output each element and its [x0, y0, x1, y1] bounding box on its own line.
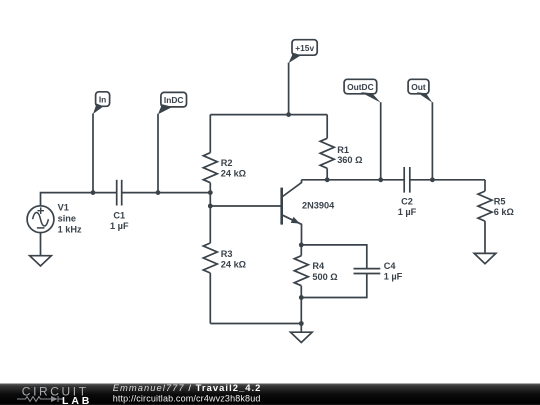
label C2 value: [398, 196, 417, 217]
svg-text:InDC: InDC: [164, 95, 184, 105]
svg-text:Out: Out: [411, 82, 426, 92]
wire R4 bottom to ground node: [300, 298, 302, 333]
svg-text:360 Ω: 360 Ω: [337, 155, 362, 165]
svg-text:OutDC: OutDC: [347, 82, 374, 92]
label R3 value: [221, 249, 246, 270]
wire emitter node to R4 top handled above; node junction emitter: [299, 243, 304, 248]
wire R3 bottom run to ground node: [210, 323, 301, 325]
flag In: [93, 92, 110, 114]
capacitor C2: [404, 167, 410, 193]
ground under V1: [30, 256, 52, 266]
label V1 value: [58, 202, 82, 234]
node junction R4 bottom: [299, 295, 304, 300]
resistor R2: [203, 115, 217, 193]
flag OutDC: [344, 79, 381, 102]
resistor R5: [478, 180, 492, 254]
ground under R5: [474, 253, 496, 263]
svg-text:R2: R2: [221, 158, 233, 168]
wire main input rail y=192.6 right of C1: [122, 192, 211, 194]
label R5 value: [494, 196, 514, 217]
resistor R1: [320, 115, 334, 180]
label R2 value: [221, 158, 246, 179]
label R1 value: [337, 145, 362, 165]
svg-text:1 µF: 1 µF: [110, 221, 129, 231]
svg-text:Emmanuel777 / Travail2_4.2: Emmanuel777 / Travail2_4.2: [113, 382, 262, 393]
flag Out: [408, 79, 432, 102]
voltage source V1: [27, 206, 54, 233]
svg-text:500 Ω: 500 Ω: [312, 272, 337, 282]
svg-text:R5: R5: [494, 196, 506, 206]
capacitor C4: [354, 269, 381, 274]
node junction In: [91, 190, 96, 195]
label C1 value: [110, 210, 129, 231]
wire C4 branch top: [301, 245, 367, 269]
svg-text:R1: R1: [337, 145, 349, 155]
svg-text:In: In: [99, 94, 106, 104]
resistor R4: [294, 245, 308, 298]
flag InDC: [158, 92, 187, 114]
footer bar: [0, 384, 540, 405]
svg-text:24 kΩ: 24 kΩ: [221, 169, 246, 179]
node junction Out: [430, 177, 435, 182]
logo squiggle wire resistor diode: [17, 396, 64, 402]
svg-text:6 kΩ: 6 kΩ: [494, 207, 514, 217]
svg-text:1 µF: 1 µF: [398, 207, 417, 217]
wire OutDC flag to rail: [380, 102, 382, 180]
label C4 value: [384, 261, 403, 282]
wire main input rail y=192.6 left of C1: [41, 193, 117, 206]
svg-text:+15v: +15v: [295, 43, 314, 53]
flag +15v: [289, 40, 318, 63]
svg-text:sine: sine: [58, 213, 76, 223]
wire C4 branch bottom: [301, 273, 367, 297]
wire collector rail left of C2: [302, 179, 405, 181]
svg-text:R3: R3: [221, 249, 233, 259]
wire InDC flag to rail: [157, 114, 159, 193]
svg-text:24 kΩ: 24 kΩ: [221, 260, 246, 270]
transistor Q1 2N3904: [282, 180, 302, 245]
ground under R4: [291, 332, 313, 342]
svg-text:R4: R4: [312, 261, 325, 271]
resistor R3: [203, 193, 217, 324]
svg-text:C4: C4: [384, 261, 397, 271]
wire collector rail right of C2: [410, 179, 485, 181]
svg-text:LAB: LAB: [62, 395, 92, 405]
wire In flag to rail: [92, 114, 94, 193]
wire V1 bottom stub: [40, 233, 42, 256]
svg-text:http://circuitlab.com/cr4wvz3h: http://circuitlab.com/cr4wvz3h8k8ud: [113, 393, 261, 403]
wire Out flag to rail: [431, 102, 433, 180]
wire base: [210, 205, 281, 207]
node junction +15v rail: [286, 112, 291, 117]
svg-text:C2: C2: [401, 196, 413, 206]
node junction R1 bottom: [325, 177, 330, 182]
node junction OutDC: [378, 177, 383, 182]
svg-text:1 kHz: 1 kHz: [58, 224, 82, 234]
wire +15v supply rail y=114.6: [210, 114, 327, 116]
node junction base branch: [208, 204, 213, 209]
svg-text:2N3904: 2N3904: [302, 201, 335, 211]
svg-text:C1: C1: [113, 210, 125, 220]
svg-text:V1: V1: [58, 202, 69, 212]
wire +15v flag to rail: [288, 63, 290, 115]
node junction InDC: [156, 190, 161, 195]
svg-text:1 µF: 1 µF: [384, 272, 403, 282]
capacitor C1: [117, 180, 122, 206]
node junction ground: [299, 321, 304, 326]
label R4 value: [312, 261, 337, 282]
node junction R2 bottom / main rail: [208, 190, 213, 195]
